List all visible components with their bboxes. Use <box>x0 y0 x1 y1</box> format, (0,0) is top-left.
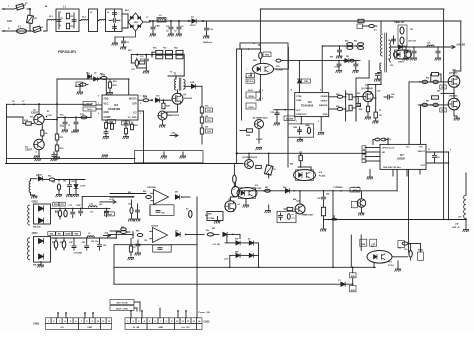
capacitor C62 <box>95 237 102 250</box>
ground <box>454 116 460 120</box>
svg-text:CR51: CR51 <box>32 232 39 235</box>
svg-text:C9: C9 <box>428 149 430 151</box>
label <box>55 204 102 214</box>
svg-text:Power_ON: Power_ON <box>199 312 210 314</box>
label <box>33 226 41 267</box>
svg-text:CRD1: CRD1 <box>398 62 405 64</box>
svg-text:R6z: R6z <box>206 230 209 232</box>
wire VCC left <box>274 109 295 111</box>
label <box>290 152 303 166</box>
svg-text:R7x R7y: R7x R7y <box>384 139 391 141</box>
svg-text:C2: C2 <box>68 125 70 127</box>
resistor R22 <box>122 121 130 139</box>
wire pin top2 <box>128 79 130 95</box>
svg-text:1: 1 <box>296 121 297 123</box>
wire <box>355 96 363 121</box>
resistor R54 <box>56 179 62 197</box>
svg-text:OOM: OOM <box>296 100 301 102</box>
svg-text:14: 14 <box>290 89 292 92</box>
resistor R70 <box>373 138 388 144</box>
resistor R6z <box>206 230 214 236</box>
svg-text:R9: R9 <box>75 86 77 88</box>
svg-text:2SK2545: 2SK2545 <box>449 72 458 75</box>
svg-text:3V3: 3V3 <box>406 147 409 149</box>
svg-text:CN50: CN50 <box>33 323 40 326</box>
svg-text:8: 8 <box>98 96 99 98</box>
svg-text:C1: C1 <box>60 125 62 127</box>
resistor R40 <box>263 189 270 192</box>
ground <box>358 213 364 215</box>
svg-text:R51: R51 <box>354 41 357 43</box>
svg-text:C72: C72 <box>69 205 72 207</box>
svg-text:C5027: C5027 <box>25 149 33 152</box>
svg-text:PC123: PC123 <box>255 188 262 190</box>
svg-text:Q7 MMBT2222: Q7 MMBT2222 <box>242 157 258 159</box>
ground <box>265 205 271 213</box>
svg-text:D6: D6 <box>248 239 250 241</box>
transistor Q5 FET <box>225 199 236 212</box>
svg-text:R71: R71 <box>55 211 58 213</box>
wire <box>115 31 136 37</box>
connector CN51 stubs <box>130 305 197 318</box>
wire top bus <box>260 8 444 10</box>
capacitor C56 <box>373 94 394 99</box>
filter box L3 <box>106 9 123 32</box>
wire main rail <box>150 20 356 22</box>
node C09 <box>46 115 53 117</box>
capacitor C5 <box>113 24 117 31</box>
ground <box>143 71 149 73</box>
svg-text:PC928: PC928 <box>276 70 283 72</box>
resistor R57 <box>419 80 427 83</box>
ground <box>77 86 83 94</box>
resistor R53B <box>43 178 55 181</box>
svg-text:ORN-T: ORN-T <box>321 101 329 103</box>
capacitor C51 <box>411 46 417 60</box>
diode D2 <box>94 77 100 81</box>
svg-text:R81: R81 <box>52 242 55 244</box>
transistor Q6 MMBT2222 <box>253 118 269 129</box>
svg-text:TDA16846: TDA16846 <box>301 105 314 108</box>
label box R8B <box>370 239 377 246</box>
wire rail to T3 <box>356 19 381 33</box>
transformer T3 primary <box>380 34 383 71</box>
label box R3B <box>350 284 357 292</box>
wire v447 <box>448 152 450 220</box>
capacitor C7H <box>270 110 280 126</box>
label <box>371 246 423 252</box>
wire box <box>357 24 377 29</box>
label CR52 <box>32 201 39 204</box>
svg-text:C1: C1 <box>59 12 61 14</box>
inductor L50 <box>427 43 434 47</box>
resistor R55 <box>365 102 371 120</box>
diode D64 <box>175 195 182 199</box>
label <box>265 186 343 201</box>
label CR81 <box>388 265 394 267</box>
winding W12 <box>28 205 30 225</box>
label <box>359 85 381 113</box>
svg-text:C9: C9 <box>174 31 176 33</box>
transistor Q52 FET <box>448 70 460 88</box>
svg-text:D56: D56 <box>437 91 440 93</box>
svg-text:—: — <box>157 305 159 307</box>
wire <box>229 243 259 268</box>
svg-text:R6B: R6B <box>306 125 311 127</box>
ground <box>214 217 220 224</box>
resistor R5x <box>440 85 446 89</box>
wire <box>373 263 375 267</box>
svg-text:2: 2 <box>246 77 247 79</box>
svg-text:4u7/50v: 4u7/50v <box>71 131 79 134</box>
label <box>458 217 462 219</box>
wire <box>27 8 31 10</box>
svg-text:D95: D95 <box>175 231 178 233</box>
ground <box>367 169 373 179</box>
inductor L52 <box>89 204 97 208</box>
svg-text:C16: C16 <box>131 69 134 71</box>
wire <box>300 154 302 167</box>
resistor R23 <box>131 122 139 130</box>
resistor R42 <box>320 203 336 231</box>
node J8 <box>12 101 15 105</box>
wire powerON v <box>196 197 198 313</box>
wire left box left <box>6 104 8 163</box>
label boxes R5x <box>48 232 81 236</box>
svg-text:LPO: LPO <box>419 147 423 149</box>
svg-text:FSP230-3F1: FSP230-3F1 <box>58 50 76 54</box>
svg-text:D54: D54 <box>72 180 75 183</box>
svg-text:C6: C6 <box>133 247 135 249</box>
svg-text:C52P: C52P <box>76 205 81 207</box>
svg-text:R15: R15 <box>128 50 131 52</box>
wire <box>233 234 240 238</box>
svg-text:C06: C06 <box>391 94 394 96</box>
transistor Q7 MMBT2222 <box>242 157 258 169</box>
svg-text:PC7906: PC7906 <box>207 218 215 220</box>
svg-text:ca: ca <box>292 214 294 216</box>
capacitor C3 <box>113 10 117 17</box>
label box TieDraft <box>83 107 96 111</box>
capacitor C5A <box>246 73 255 78</box>
capacitor C2 <box>72 13 76 28</box>
svg-text:OUT: OUT <box>421 165 426 167</box>
snubber R-C pair 3 <box>175 50 183 58</box>
wire <box>441 87 455 98</box>
capacitor C7 <box>150 20 159 36</box>
label <box>8 5 48 30</box>
wire row 267 <box>114 267 375 269</box>
resistor R5c <box>356 97 361 107</box>
junction <box>0 0 1 1</box>
node AC neutral terminal <box>2 30 5 32</box>
wire <box>38 103 40 114</box>
svg-text:306: 306 <box>205 127 208 129</box>
diode D10 <box>155 98 159 102</box>
svg-text:C6B: C6B <box>293 127 298 129</box>
svg-text:1: 1 <box>140 96 141 98</box>
wire <box>127 14 129 22</box>
svg-text:LMP_05: LMP_05 <box>452 227 460 229</box>
svg-text:R2: R2 <box>47 111 49 113</box>
svg-text:MMBT2907: MMBT2907 <box>302 215 314 217</box>
optocoupler IC9 <box>367 250 393 263</box>
svg-text:+8V: +8V <box>171 133 175 135</box>
svg-text:BD1: BD1 <box>125 10 129 12</box>
vertical wire <box>56 103 58 134</box>
left pins <box>362 146 380 163</box>
svg-text:VR RAP: VR RAP <box>352 190 360 193</box>
svg-text:Q2: Q2 <box>365 85 367 87</box>
wire <box>167 99 172 101</box>
capacitor C50 <box>403 47 409 60</box>
zener ZD6 <box>223 232 234 236</box>
svg-text:C7H: C7H <box>270 112 275 114</box>
svg-text:R13: R13 <box>60 115 63 117</box>
svg-text:C84: C84 <box>103 244 106 247</box>
wire <box>30 30 32 32</box>
svg-text:GND: GND <box>87 327 92 329</box>
svg-text:R8A: R8A <box>246 134 251 137</box>
svg-text:C73: C73 <box>90 212 93 214</box>
wire out2 <box>426 162 449 164</box>
svg-text:R5x: R5x <box>441 87 444 89</box>
svg-text:1uF: 1uF <box>237 204 240 206</box>
svg-text:sem: sem <box>292 218 296 220</box>
wire <box>298 166 311 170</box>
svg-text:R54: R54 <box>52 181 55 184</box>
transformer T1 core <box>179 78 181 90</box>
wire +12 rail <box>51 207 111 209</box>
svg-text:R5y: R5y <box>441 110 444 112</box>
svg-text:OPIn PowerI: OPIn PowerI <box>382 147 395 150</box>
resistor R59 <box>420 103 427 106</box>
capacitor C6 <box>120 37 129 49</box>
wire drain up <box>177 90 179 93</box>
transistor Q51 FET <box>448 95 460 110</box>
supervisor loop box <box>114 245 197 285</box>
ground <box>31 192 38 198</box>
svg-text:D10: D10 <box>156 96 159 98</box>
svg-text:D91: D91 <box>175 192 178 194</box>
transistor Q3 FET <box>167 93 187 115</box>
ground <box>0 0 1 1</box>
svg-text:R5A: R5A <box>265 54 270 57</box>
label <box>246 59 263 100</box>
diode D3 <box>188 17 196 24</box>
label <box>128 47 178 72</box>
svg-text:C95: C95 <box>144 240 147 242</box>
wire <box>256 129 263 144</box>
svg-text:R1A: R1A <box>174 47 178 50</box>
resistor R41 <box>284 207 293 210</box>
wire row49 <box>237 48 261 50</box>
pins bottom <box>393 169 420 176</box>
diode D75 <box>338 280 345 286</box>
diode D18 <box>184 82 202 89</box>
svg-text:2SK2645: 2SK2645 <box>184 97 192 100</box>
ground <box>318 133 324 135</box>
svg-text:C06: C06 <box>377 91 380 93</box>
svg-text:R45: R45 <box>290 163 293 166</box>
svg-text:R60: R60 <box>205 215 208 217</box>
svg-text:LM339: LM339 <box>397 158 405 161</box>
connector CN50 stubs <box>57 312 94 318</box>
svg-text:R16: R16 <box>30 117 33 119</box>
svg-text:R82: R82 <box>60 242 63 244</box>
inductor L53 <box>87 233 94 237</box>
svg-text:MULTs: MULTs <box>129 99 137 101</box>
zener D54 <box>73 179 79 197</box>
optocoupler CRD1 <box>394 50 412 64</box>
wire <box>116 232 121 239</box>
svg-text:MagA: MagA <box>107 213 113 216</box>
diode D40 <box>285 189 295 193</box>
label +12V arrow <box>100 199 116 204</box>
filter box L1 <box>56 6 79 32</box>
feedback rect <box>82 197 134 209</box>
svg-text:VD5A: VD5A <box>248 95 254 98</box>
capacitor C10 <box>203 21 213 38</box>
resistor R13 <box>80 114 87 119</box>
svg-text:CH-ON: CH-ON <box>86 104 93 106</box>
wire <box>299 190 301 204</box>
wire <box>201 134 203 144</box>
rectifier CR52 <box>34 204 51 224</box>
wire <box>201 123 203 128</box>
transformer T1 secondary <box>184 80 186 90</box>
label box R2B <box>350 273 357 278</box>
wire <box>229 197 231 201</box>
svg-text:CN1: CN1 <box>7 20 12 23</box>
wire pin GND <box>320 117 322 131</box>
svg-text:+5V: +5V <box>60 327 64 329</box>
ground <box>34 156 40 158</box>
rectifier CR51 <box>34 237 51 263</box>
resistor R58 <box>431 73 441 82</box>
small box <box>398 241 410 248</box>
label CR51 <box>32 232 39 235</box>
resistor R61 <box>62 237 66 250</box>
resistor R17 <box>139 59 145 64</box>
wire <box>168 75 184 77</box>
node JP <box>253 43 260 46</box>
capacitor CS3 <box>353 60 359 73</box>
label <box>384 139 451 152</box>
transformer T3 secondary <box>374 30 391 62</box>
svg-text:C54: C54 <box>63 180 66 183</box>
svg-text:R44: R44 <box>293 198 296 201</box>
transistor Q4 MMBT2222 <box>158 111 180 120</box>
svg-text:PC7L8: PC7L8 <box>388 265 394 267</box>
ground <box>38 262 44 268</box>
svg-text:TieOn: TieOn <box>87 109 93 111</box>
svg-text:C5027: C5027 <box>31 112 39 115</box>
small box <box>0 0 1 1</box>
svg-text:C5A: C5A <box>248 75 253 78</box>
svg-text:C2b: C2b <box>398 248 401 250</box>
wire <box>79 20 81 22</box>
svg-text:C1T 1uF: C1T 1uF <box>336 187 343 189</box>
svg-text:4: 4 <box>262 97 263 100</box>
svg-text:D5: D5 <box>379 110 381 112</box>
svg-text:D2: D2 <box>94 73 96 75</box>
svg-text:R53: R53 <box>48 176 51 178</box>
junction <box>333 187 342 192</box>
snubber R-C pair 2 <box>164 50 173 58</box>
svg-text:GND GND CH1 Wire: GND GND CH1 Wire <box>383 167 401 169</box>
svg-text:R63: R63 <box>336 94 339 96</box>
node AC line terminal <box>2 8 5 10</box>
capacitor C58 <box>105 208 109 217</box>
svg-text:+5V_SB: +5V_SB <box>352 187 360 189</box>
wire mid row <box>236 152 363 154</box>
IC U2 TDA16846 <box>295 93 329 117</box>
resistor R9 <box>76 82 88 87</box>
snubber R-C pair 1 <box>136 50 163 58</box>
svg-text:1: 1 <box>246 69 247 71</box>
svg-text:COMP: COMP <box>104 117 111 119</box>
resistor R11 <box>55 134 64 140</box>
svg-text:R96: R96 <box>136 231 139 233</box>
label <box>290 89 360 124</box>
resistor R57B <box>430 80 438 83</box>
svg-text:D1: D1 <box>86 73 88 75</box>
resistor RS5 <box>350 59 354 62</box>
optocoupler PC928 <box>253 63 284 74</box>
capacitor C12 <box>60 116 68 132</box>
diode D52 <box>38 175 43 181</box>
svg-text:-12V0: -12V0 <box>80 186 87 188</box>
wire <box>55 179 85 181</box>
wire <box>56 140 58 145</box>
resistor RS2 <box>356 43 364 50</box>
svg-text:C83: C83 <box>91 241 94 243</box>
label Power_ON <box>199 312 210 314</box>
svg-text:+5V/GND: +5V/GND <box>73 253 82 255</box>
label <box>52 241 106 247</box>
resistor R66 box <box>207 212 223 221</box>
label T1 <box>174 73 177 76</box>
label +5V_SB <box>212 244 220 246</box>
svg-text:8: 8 <box>320 90 321 92</box>
wire <box>98 20 100 22</box>
wire <box>248 153 250 160</box>
diode D55 <box>374 110 382 118</box>
label <box>352 187 360 193</box>
resistor R62 <box>121 231 131 234</box>
svg-text:+12V: +12V <box>109 199 115 201</box>
wire <box>259 75 261 101</box>
component box <box>277 211 296 222</box>
resistor R24 <box>143 96 149 102</box>
svg-text:R9b: R9b <box>371 246 374 248</box>
wire left box top <box>7 103 92 105</box>
svg-text:DRAIN: DRAIN <box>321 95 328 98</box>
wire <box>160 99 167 101</box>
resistor R2 <box>66 23 74 29</box>
ground <box>243 198 249 207</box>
resistor RS4 <box>276 59 281 62</box>
inductor FL2 <box>81 17 89 21</box>
ground <box>180 152 186 158</box>
resistor R63 <box>329 95 346 98</box>
shield box <box>135 151 204 163</box>
thermistor NTC <box>265 165 277 175</box>
inductor L60 edge <box>464 195 466 219</box>
wire OUT pin <box>138 99 142 101</box>
varistor RV1 <box>27 9 38 32</box>
